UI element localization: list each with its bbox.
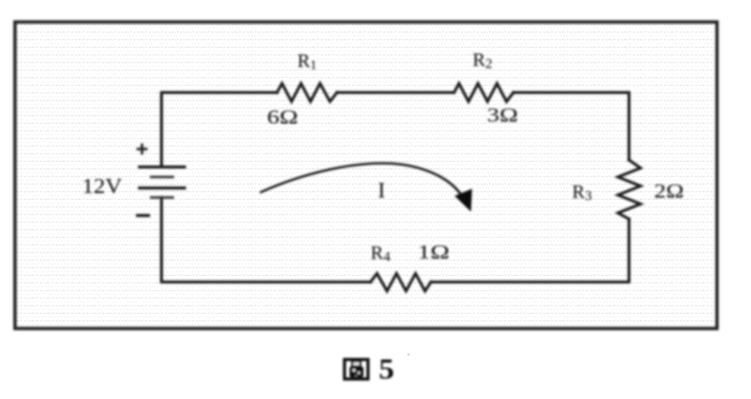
faint speck artifact	[407, 353, 409, 355]
wire R2 to top-right corner down to R3	[514, 93, 630, 161]
svg-text:I: I	[378, 178, 385, 203]
battery plate short	[150, 176, 174, 179]
resistor R4	[371, 274, 432, 292]
resistor R1	[277, 84, 337, 102]
wire R3 to bottom-right corner to R4	[431, 219, 629, 282]
wire R1 to R2	[337, 91, 454, 94]
battery 12V	[138, 167, 186, 198]
frame (decorative border)	[15, 22, 717, 329]
svg-text:12V: 12V	[82, 174, 122, 198]
current arrowhead	[456, 190, 472, 211]
battery positive terminal +	[137, 144, 148, 155]
wire R4 to bottom-left corner up to battery -	[162, 198, 371, 283]
battery plate short bottom	[150, 196, 174, 199]
resistor R3	[618, 160, 641, 219]
current arrow I (curved arrow)	[260, 163, 462, 196]
resistor R2	[454, 84, 514, 102]
wire battery + to top-left corner to R1	[162, 93, 278, 168]
battery plate long top	[138, 166, 186, 169]
svg-text:6Ω: 6Ω	[267, 107, 298, 129]
svg-text:1Ω: 1Ω	[418, 242, 450, 264]
svg-text:2Ω: 2Ω	[654, 181, 684, 203]
svg-text:5: 5	[379, 354, 395, 386]
caption figure symbol 圖	[345, 354, 395, 386]
battery plate long	[138, 187, 186, 190]
svg-text:3Ω: 3Ω	[487, 105, 518, 127]
battery negative terminal -	[136, 214, 150, 217]
